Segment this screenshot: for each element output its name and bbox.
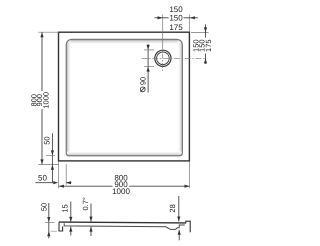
svg-text:1000: 1000 — [112, 187, 130, 196]
svg-text:1000: 1000 — [42, 92, 51, 109]
svg-text:150: 150 — [169, 14, 183, 23]
svg-text:0.7°: 0.7° — [81, 197, 90, 210]
svg-text:175: 175 — [204, 39, 213, 52]
svg-text:175: 175 — [169, 23, 183, 32]
svg-text:28: 28 — [168, 204, 177, 212]
svg-text:50: 50 — [40, 203, 49, 211]
svg-text:150: 150 — [169, 5, 183, 14]
svg-text:15: 15 — [61, 204, 70, 212]
svg-text:50: 50 — [43, 136, 52, 144]
svg-text:90: 90 — [138, 77, 147, 85]
svg-text:50: 50 — [38, 174, 47, 183]
